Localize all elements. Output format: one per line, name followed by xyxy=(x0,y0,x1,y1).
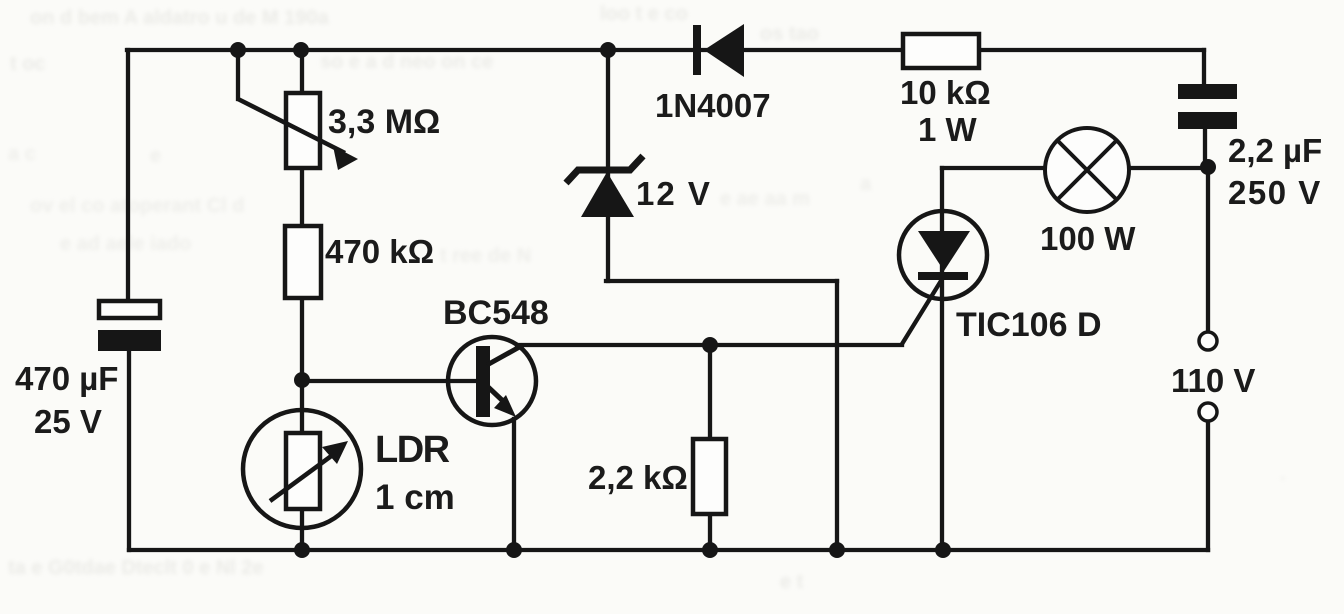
lamp X1 circle xyxy=(1045,128,1129,212)
svg-text:3,3 MΩ: 3,3 MΩ xyxy=(328,103,440,141)
capacitor C2 2,2uF bottom plate xyxy=(1178,112,1237,129)
junction dot bottom rail emitter xyxy=(506,542,522,558)
svg-text:.: . xyxy=(1280,463,1286,485)
svg-text:t oc: t oc xyxy=(10,53,46,75)
wire lamp horizontal xyxy=(942,166,1208,170)
capacitor C1 470uF bottom plate xyxy=(98,330,161,351)
wire zener elbow horizontal xyxy=(606,279,837,283)
junction dot bottom rail LDR xyxy=(294,542,310,558)
svg-text:so e a d neo on ce: so e a d neo on ce xyxy=(320,51,493,73)
wire collector to gate node xyxy=(517,343,902,347)
LDR arrow xyxy=(270,441,348,501)
capacitor C1 470uF top plate xyxy=(99,301,160,318)
svg-text:ta e G0tdae Dteclt 0 e Nl: ta e G0tdae Dteclt 0 e Nl 2e xyxy=(8,557,264,579)
svg-text:BC548: BC548 xyxy=(443,294,549,332)
wire zener vertical xyxy=(606,50,610,281)
svg-text:e: e xyxy=(150,145,161,167)
junction dot capacitor C2 node xyxy=(1200,159,1216,175)
LDR circle xyxy=(243,410,361,528)
wire top rail xyxy=(127,48,1204,52)
transistor Q1 BC548 circle xyxy=(448,337,536,425)
wire potentiometer wiper stub xyxy=(236,50,240,99)
transistor Q1 emitter stroke with arrow xyxy=(487,386,516,417)
svg-text:e ae aa m: e ae aa m xyxy=(720,188,810,210)
svg-text:1 W: 1 W xyxy=(918,111,978,148)
junction dot bottom rail zener elbow xyxy=(829,542,845,558)
wire divider vertical P1 to R1 xyxy=(300,50,304,226)
svg-text:110 V: 110 V xyxy=(1171,362,1255,399)
resistor R4 2,2k body xyxy=(693,439,726,514)
junction dot top rail left xyxy=(230,42,246,58)
transistor Q1 base bar xyxy=(476,346,490,417)
scan ghost noise top row xyxy=(10,3,819,75)
svg-text:1N4007: 1N4007 xyxy=(655,87,771,124)
wire left vertical upper xyxy=(126,50,130,303)
wire divider vertical R1 to base node xyxy=(300,297,304,381)
scan ghost noise bottom xyxy=(8,557,804,593)
diode D1 1N4007 cathode bar xyxy=(693,25,701,75)
junction dot top rail divider xyxy=(293,42,309,58)
wire gate diagonal into TIC106 xyxy=(902,276,944,344)
lamp X1 cross xyxy=(1057,140,1117,200)
zener diode D2 cathode bar with hooks xyxy=(566,156,643,183)
wire capacitor C2 to junction xyxy=(1203,128,1207,167)
junction dot bottom rail TIC106 xyxy=(935,542,951,558)
svg-text:e t: e t xyxy=(780,571,804,593)
SCR Q2 cathode bar xyxy=(918,272,968,280)
resistor R2 10k body xyxy=(903,34,979,68)
svg-text:2,2 kΩ: 2,2 kΩ xyxy=(588,459,688,496)
svg-text:100 W: 100 W xyxy=(1040,220,1136,257)
SCR Q2 triangle xyxy=(918,231,970,271)
svg-text:os tao: os tao xyxy=(760,23,819,45)
svg-text:loo t e co: loo t e co xyxy=(600,3,688,25)
svg-text:1 cm: 1 cm xyxy=(375,478,455,517)
svg-text:t ree de N: t ree de N xyxy=(440,245,531,267)
diode D1 1N4007 triangle xyxy=(704,24,744,77)
svg-text:2,2 µF: 2,2 µF xyxy=(1228,132,1322,169)
wire TIC106 anode/cathode vertical xyxy=(940,168,944,550)
potentiometer P1 arrow xyxy=(238,99,358,170)
svg-text:250 V: 250 V xyxy=(1228,174,1322,211)
SCR Q2 TIC106 circle xyxy=(899,211,987,299)
svg-text:25 V: 25 V xyxy=(34,403,102,440)
wire top-right corner down to capacitor C2 xyxy=(1202,50,1206,86)
terminal upper 110V xyxy=(1199,332,1217,350)
svg-text:10 kΩ: 10 kΩ xyxy=(900,74,991,111)
wire base node to transistor base xyxy=(302,379,477,383)
svg-text:12 V: 12 V xyxy=(636,175,712,212)
scan ghost noise middle xyxy=(8,143,1286,485)
junction dot gate node xyxy=(702,337,718,353)
wire right vertical from junction to upper terminal xyxy=(1206,167,1210,331)
svg-text:470 µF: 470 µF xyxy=(15,360,118,397)
svg-text:TIC106 D: TIC106 D xyxy=(956,306,1102,344)
wire base node through LDR to bottom rail xyxy=(300,380,304,550)
wire left vertical lower xyxy=(127,349,131,550)
LDR body xyxy=(286,433,320,509)
wire gate node down through R4 to bottom rail xyxy=(708,345,712,550)
svg-text:a: a xyxy=(860,173,872,195)
svg-text:e ad aele iado: e ad aele iado xyxy=(60,233,191,255)
svg-text:on d bem A aldatro u de: on d bem A aldatro u de M 190a xyxy=(30,7,329,29)
junction dot bottom rail R4 xyxy=(702,542,718,558)
zener diode D2 12V triangle xyxy=(581,172,634,217)
svg-text:a c: a c xyxy=(8,143,36,165)
junction dot top rail zener xyxy=(600,42,616,58)
wire emitter down to bottom rail xyxy=(512,419,516,550)
junction dot base node xyxy=(294,372,310,388)
svg-text:470 kΩ: 470 kΩ xyxy=(325,233,434,270)
resistor R1 470k body xyxy=(285,226,321,298)
wire bottom rail xyxy=(129,548,1208,552)
potentiometer P1 body xyxy=(286,93,320,168)
svg-text:ov el co atoperant Cl d: ov el co atoperant Cl d xyxy=(30,195,244,217)
terminal lower 110V xyxy=(1199,403,1217,421)
transistor Q1 collector stroke xyxy=(487,345,523,365)
wire zener elbow vertical to bottom rail xyxy=(835,281,839,550)
wire right vertical from bottom rail to lower terminal xyxy=(1206,422,1210,550)
svg-text:LDR: LDR xyxy=(375,429,450,471)
capacitor C2 2,2uF top plate xyxy=(1178,84,1237,99)
